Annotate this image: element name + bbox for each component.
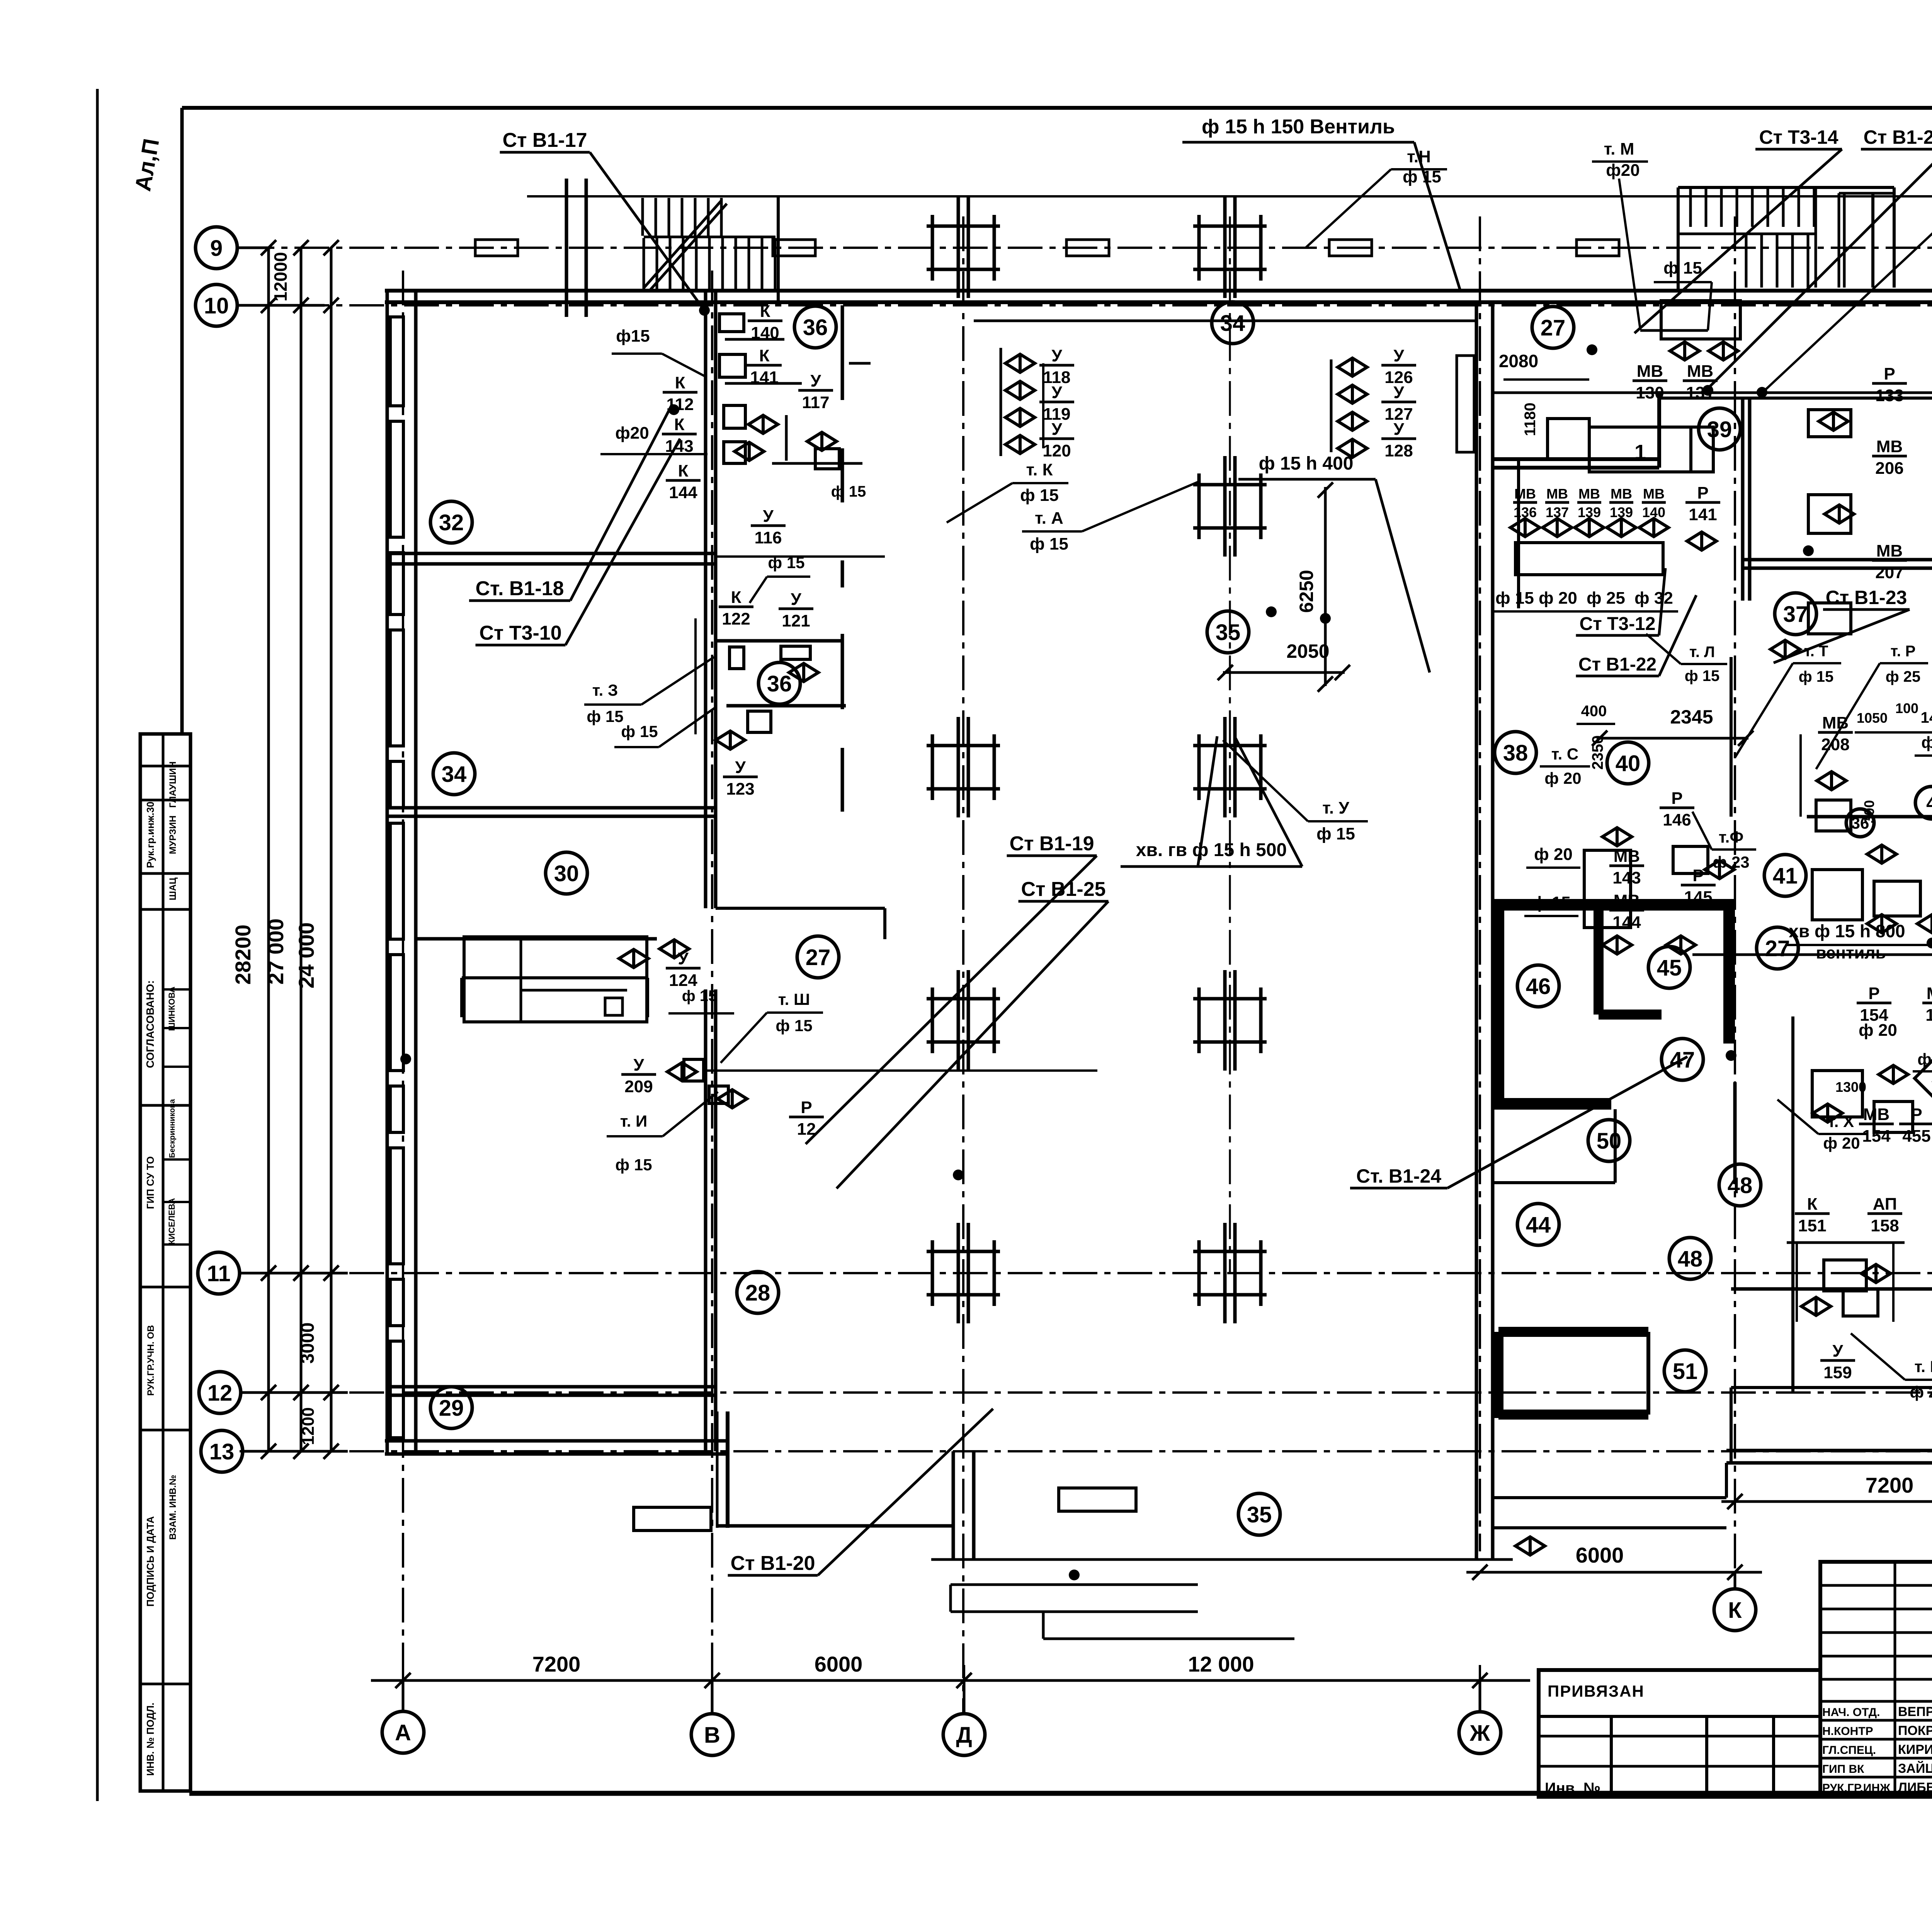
svg-text:36: 36 bbox=[767, 671, 792, 696]
svg-text:27: 27 bbox=[1765, 936, 1790, 961]
stair tread upper bbox=[681, 198, 684, 236]
svg-text:Ст. В1-24: Ст. В1-24 bbox=[1356, 1165, 1441, 1187]
svg-text:ф 25: ф 25 bbox=[1587, 589, 1625, 608]
stair tread 2 lower bbox=[1776, 235, 1779, 288]
svg-text:159: 159 bbox=[1823, 1363, 1852, 1382]
interior walls left classroom block bbox=[387, 552, 716, 555]
svg-text:2050: 2050 bbox=[1286, 640, 1329, 662]
room 35 circle bbox=[1238, 1493, 1280, 1535]
svg-text:ф 15: ф 15 bbox=[1663, 259, 1702, 278]
axis B circle bbox=[691, 1714, 733, 1755]
wall 43/49 bbox=[1731, 1386, 1932, 1389]
svg-text:154: 154 bbox=[1862, 1127, 1891, 1146]
svg-text:хв ф 15 h 800: хв ф 15 h 800 bbox=[1789, 921, 1905, 941]
room 35 circle bbox=[1207, 611, 1249, 653]
svg-text:т. С: т. С bbox=[1551, 745, 1579, 763]
misc pipe lines bbox=[725, 338, 784, 341]
fixture bbox=[1808, 495, 1851, 533]
wall 50/44 bbox=[1493, 1181, 1615, 1184]
svg-text:1400: 1400 bbox=[1921, 709, 1932, 726]
coldroom left wall bbox=[1493, 905, 1504, 1104]
axis Zh line bbox=[1479, 216, 1481, 1551]
room 28 circle bbox=[737, 1272, 779, 1313]
svg-text:ф 20: ф 20 bbox=[1539, 589, 1577, 608]
svg-text:208: 208 bbox=[1821, 735, 1849, 754]
svg-text:МВ: МВ bbox=[1927, 984, 1932, 1003]
svg-text:МВ: МВ bbox=[1822, 713, 1849, 732]
svg-text:1180: 1180 bbox=[1522, 403, 1539, 436]
column bbox=[927, 717, 1000, 817]
fixture bbox=[1808, 410, 1851, 437]
svg-text:вентиль: вентиль bbox=[1816, 943, 1886, 962]
fixture bbox=[1673, 846, 1708, 873]
axis 11 circle bbox=[198, 1252, 240, 1294]
svg-text:ф 15: ф 15 bbox=[1020, 486, 1059, 505]
svg-text:НАЧ. ОТД.: НАЧ. ОТД. bbox=[1822, 1706, 1880, 1719]
room36b north wall bbox=[714, 639, 843, 643]
svg-text:40: 40 bbox=[1616, 751, 1641, 776]
svg-text:Р: Р bbox=[1868, 984, 1879, 1003]
svg-text:ф20: ф20 bbox=[1606, 161, 1639, 180]
svg-text:У: У bbox=[735, 758, 746, 777]
room30 small fixture bbox=[605, 998, 622, 1015]
axis 11 line bbox=[240, 1272, 1932, 1274]
svg-text:48: 48 bbox=[1678, 1246, 1703, 1272]
svg-text:3000: 3000 bbox=[298, 1323, 318, 1364]
svg-text:МВ: МВ bbox=[1546, 486, 1568, 502]
svg-text:2080: 2080 bbox=[1499, 351, 1538, 371]
svg-text:143: 143 bbox=[1612, 868, 1641, 887]
svg-text:КИСЕЛЕВА: КИСЕЛЕВА bbox=[167, 1198, 177, 1245]
svg-text:9: 9 bbox=[210, 236, 223, 261]
svg-text:Н.КОНТР: Н.КОНТР bbox=[1822, 1725, 1873, 1738]
room 4 circle bbox=[1915, 787, 1932, 819]
svg-text:35: 35 bbox=[1216, 620, 1241, 645]
svg-text:ф 15: ф 15 bbox=[1917, 1050, 1932, 1068]
svg-text:т. З: т. З bbox=[592, 681, 618, 699]
svg-text:Р: Р bbox=[1884, 364, 1895, 383]
axis K line bbox=[1734, 216, 1736, 1589]
svg-text:А: А bbox=[395, 1720, 411, 1745]
fraction labels foyer area bbox=[1039, 346, 1074, 387]
fixture bbox=[748, 711, 771, 732]
exterior top wall bbox=[385, 289, 1932, 293]
fixture bbox=[709, 1086, 728, 1103]
bottom wall left block bbox=[385, 1439, 729, 1443]
window left wall bbox=[390, 1148, 403, 1264]
axis 9 line bbox=[240, 247, 1932, 249]
svg-text:7200: 7200 bbox=[532, 1652, 581, 1676]
svg-text:У: У bbox=[1051, 420, 1062, 439]
stair tread upper bbox=[720, 198, 723, 236]
wing portico edge bbox=[931, 1558, 1513, 1561]
svg-text:РУК.ГР.ИНЖ: РУК.ГР.ИНЖ bbox=[1822, 1782, 1891, 1794]
axis 10 line bbox=[240, 304, 1932, 306]
wall 37/41 bbox=[1807, 815, 1932, 819]
svg-text:МВ: МВ bbox=[1876, 541, 1903, 560]
svg-text:ф 15: ф 15 bbox=[1799, 668, 1834, 685]
fixture bbox=[1691, 427, 1713, 472]
left vertical dimension lines bbox=[267, 248, 270, 1451]
svg-text:У: У bbox=[791, 590, 801, 609]
svg-text:6000: 6000 bbox=[815, 1652, 863, 1676]
svg-text:ф 20: ф 20 bbox=[1823, 1134, 1860, 1152]
svg-text:т.Ф: т.Ф bbox=[1719, 828, 1743, 846]
svg-text:У: У bbox=[1393, 420, 1404, 439]
svg-text:455: 455 bbox=[1902, 1127, 1930, 1146]
svg-text:123: 123 bbox=[726, 780, 754, 798]
column bbox=[1193, 197, 1267, 298]
svg-text:ШИНКОВА: ШИНКОВА bbox=[167, 986, 177, 1031]
room 47 circle bbox=[1662, 1039, 1703, 1080]
pipe shaft bbox=[1457, 356, 1474, 452]
svg-text:ф 15: ф 15 bbox=[587, 707, 623, 725]
stair tread 2 bbox=[1720, 188, 1723, 227]
svg-text:ф 15: ф 15 bbox=[831, 483, 866, 500]
room 32 circle bbox=[430, 501, 472, 543]
svg-text:ф 15: ф 15 bbox=[1030, 535, 1068, 553]
svg-text:ГИП СУ ТО: ГИП СУ ТО bbox=[145, 1156, 156, 1209]
svg-text:50: 50 bbox=[1597, 1129, 1622, 1154]
axis 13 circle bbox=[201, 1430, 243, 1472]
svg-text:144: 144 bbox=[669, 483, 697, 502]
svg-text:Ст В1-23: Ст В1-23 bbox=[1826, 587, 1907, 608]
wing left wall bbox=[726, 1411, 730, 1528]
freon hatch bottom bbox=[1498, 1410, 1648, 1420]
axis D circle bbox=[943, 1714, 985, 1755]
column bbox=[1193, 717, 1267, 817]
svg-text:т. Л: т. Л bbox=[1689, 644, 1715, 661]
svg-text:128: 128 bbox=[1384, 441, 1413, 460]
stair tread upper bbox=[694, 198, 697, 236]
wall 30 bottom bbox=[416, 937, 657, 941]
svg-text:ф15: ф15 bbox=[616, 327, 650, 346]
fixture bbox=[1816, 800, 1851, 831]
diamond 5 bbox=[1915, 1057, 1932, 1100]
svg-text:Р: Р bbox=[1671, 789, 1682, 808]
room 27 circle bbox=[1532, 306, 1574, 348]
pier on axis9 bbox=[475, 240, 518, 256]
svg-text:206: 206 bbox=[1875, 459, 1903, 478]
stair tread lower bbox=[656, 238, 658, 290]
east wall seg5 bbox=[841, 748, 844, 812]
room 27 circle bbox=[797, 936, 839, 978]
stair tread lower bbox=[748, 238, 750, 290]
svg-text:Инв. №: Инв. № bbox=[1545, 1780, 1600, 1797]
svg-text:6000: 6000 bbox=[1576, 1543, 1624, 1567]
stair tread lower bbox=[643, 238, 645, 290]
pier on axis9 bbox=[1577, 240, 1619, 256]
stair tread upper bbox=[707, 198, 710, 236]
svg-text:МВ: МВ bbox=[1578, 486, 1600, 502]
fixture bbox=[1843, 1289, 1878, 1316]
svg-text:Рук.гр.инж.30: Рук.гр.инж.30 bbox=[145, 802, 156, 868]
frame bottom bbox=[189, 1791, 1932, 1796]
svg-text:т. Ш: т. Ш bbox=[778, 990, 810, 1008]
wall 32/34 bbox=[387, 562, 716, 566]
svg-text:209: 209 bbox=[624, 1077, 653, 1096]
svg-text:К: К bbox=[674, 415, 685, 434]
stair tread 2 bbox=[1782, 188, 1785, 227]
column bbox=[927, 1223, 1000, 1323]
svg-text:ф 15: ф 15 bbox=[776, 1016, 812, 1035]
svg-text:ф 15: ф 15 bbox=[1532, 893, 1571, 912]
svg-text:Д: Д bbox=[956, 1723, 972, 1748]
fraction labels top-left toilets bbox=[748, 302, 782, 342]
svg-text:35: 35 bbox=[1247, 1502, 1272, 1527]
fixture bbox=[1812, 1071, 1862, 1117]
svg-text:Р: Р bbox=[801, 1098, 812, 1117]
stair tread 2 bbox=[1751, 188, 1754, 227]
pier on axis9 bbox=[773, 240, 815, 256]
room 44 circle bbox=[1517, 1204, 1559, 1245]
svg-text:ф 20: ф 20 bbox=[1544, 769, 1581, 787]
svg-text:Ст Т3-10: Ст Т3-10 bbox=[479, 622, 561, 644]
svg-text:ГЛАУШИН: ГЛАУШИН bbox=[168, 761, 178, 808]
wall 34/30 bbox=[387, 815, 716, 818]
svg-text:У: У bbox=[1051, 346, 1062, 365]
coldroom inner wall bbox=[1594, 910, 1604, 1015]
foyer south wall bbox=[974, 320, 1476, 322]
svg-text:МВ: МВ bbox=[1863, 1105, 1889, 1124]
svg-text:30: 30 bbox=[554, 861, 579, 886]
svg-text:МВ: МВ bbox=[1611, 486, 1632, 502]
svg-text:ф 15: ф 15 bbox=[615, 1156, 652, 1174]
axis 10 circle bbox=[196, 284, 237, 326]
window left wall bbox=[390, 630, 403, 746]
room30 inner wall bbox=[462, 976, 648, 979]
svg-text:4: 4 bbox=[1926, 792, 1932, 814]
stoyaki labels bbox=[502, 129, 587, 152]
svg-text:ф 15 h 400: ф 15 h 400 bbox=[1259, 453, 1354, 474]
stair tread lower bbox=[774, 238, 777, 290]
svg-text:116: 116 bbox=[755, 528, 782, 547]
room 34 circle bbox=[433, 753, 475, 795]
intermediate column axis bbox=[1229, 216, 1231, 1273]
svg-text:36: 36 bbox=[803, 315, 828, 340]
svg-text:ф 15: ф 15 bbox=[621, 722, 658, 741]
svg-text:133: 133 bbox=[1875, 386, 1903, 405]
svg-text:К: К bbox=[675, 373, 685, 392]
svg-text:Ст. В1-18: Ст. В1-18 bbox=[476, 577, 564, 600]
svg-text:ф 20: ф 20 bbox=[1910, 1383, 1932, 1401]
axis A circle bbox=[382, 1711, 424, 1753]
pier on axis9 bbox=[1066, 240, 1109, 256]
svg-text:т. Т: т. Т bbox=[1804, 643, 1828, 660]
svg-text:1200: 1200 bbox=[299, 1407, 318, 1445]
wing bottom wall bbox=[717, 1524, 953, 1528]
svg-text:У: У bbox=[1393, 346, 1404, 365]
fixture bbox=[719, 314, 744, 332]
svg-text:ИНВ. № ПОДЛ.: ИНВ. № ПОДЛ. bbox=[145, 1702, 156, 1776]
stair tread lower bbox=[695, 238, 698, 290]
svg-text:т. И: т. И bbox=[620, 1112, 647, 1130]
stair tread upper bbox=[641, 198, 644, 236]
svg-text:143: 143 bbox=[665, 437, 693, 456]
window left wall bbox=[390, 823, 403, 939]
east wall seg3 bbox=[841, 560, 844, 587]
room30 counter bbox=[464, 937, 647, 1022]
svg-text:10: 10 bbox=[204, 293, 229, 318]
serving wall 38 bbox=[1517, 459, 1520, 608]
stair tread lower bbox=[669, 238, 672, 290]
fraction labels 38/40 area bbox=[1609, 847, 1644, 887]
window left wall bbox=[390, 421, 403, 537]
svg-text:146: 146 bbox=[1663, 810, 1691, 829]
svg-text:ф 15: ф 15 bbox=[1495, 589, 1534, 608]
fixtures: valves and boxes bbox=[748, 415, 778, 433]
svg-text:11: 11 bbox=[207, 1261, 230, 1286]
wall 28/29 bbox=[387, 1385, 716, 1389]
window left wall bbox=[390, 761, 403, 808]
svg-text:28: 28 bbox=[745, 1280, 770, 1306]
svg-text:ВЗАМ. ИНВ.№: ВЗАМ. ИНВ.№ bbox=[168, 1475, 178, 1540]
svg-text:2350: 2350 bbox=[1589, 735, 1606, 770]
window left wall bbox=[390, 553, 403, 615]
fixture bbox=[1589, 427, 1691, 472]
svg-text:ЛИБЕРЧУК: ЛИБЕРЧУК bbox=[1898, 1780, 1932, 1795]
wall room39 east bbox=[1657, 391, 1661, 468]
svg-text:29: 29 bbox=[439, 1396, 464, 1421]
svg-text:К: К bbox=[731, 588, 742, 607]
svg-text:ГЛ.СПЕЦ.: ГЛ.СПЕЦ. bbox=[1822, 1744, 1876, 1757]
bottom dimension line A-B-D-Zh bbox=[371, 1679, 1530, 1682]
stair tread upper bbox=[668, 198, 670, 236]
svg-text:У: У bbox=[763, 507, 774, 526]
stair tread lower bbox=[708, 238, 711, 290]
stair tread 2 lower bbox=[1807, 235, 1810, 288]
svg-text:44: 44 bbox=[1526, 1212, 1551, 1238]
room 29 circle bbox=[430, 1387, 472, 1428]
svg-text:ф20: ф20 bbox=[615, 424, 649, 443]
room 36 circle bbox=[759, 662, 800, 704]
svg-text:т. М: т. М bbox=[1604, 140, 1634, 158]
stair tread 2 bbox=[1798, 188, 1800, 227]
svg-text:7200: 7200 bbox=[1866, 1473, 1914, 1497]
fraction labels kitchen top bbox=[1381, 346, 1416, 387]
svg-text:т. К: т. К bbox=[1026, 460, 1053, 479]
svg-text:1: 1 bbox=[1634, 441, 1646, 464]
frame left upper bbox=[180, 108, 184, 734]
stair tread upper bbox=[655, 198, 657, 236]
svg-text:Ст В1-25: Ст В1-25 bbox=[1021, 878, 1105, 901]
room36b south wall bbox=[726, 704, 846, 708]
fixture bbox=[1824, 1260, 1866, 1291]
wall 27 bbox=[716, 907, 885, 910]
svg-text:1050: 1050 bbox=[1857, 710, 1888, 726]
svg-text:32: 32 bbox=[439, 510, 464, 535]
freon hatch left bbox=[1493, 1332, 1503, 1418]
svg-text:У: У bbox=[1832, 1342, 1843, 1360]
svg-text:51: 51 bbox=[1673, 1359, 1698, 1384]
room 36 circle bbox=[794, 306, 836, 348]
pier on axis9 bbox=[1329, 240, 1372, 256]
svg-text:В: В bbox=[704, 1723, 720, 1748]
stair tread 2 bbox=[1689, 188, 1692, 227]
svg-text:Ст Т3-12: Ст Т3-12 bbox=[1580, 614, 1656, 634]
svg-text:У: У bbox=[1051, 383, 1062, 402]
svg-text:КИРИЛЛОВА: КИРИЛЛОВА bbox=[1898, 1742, 1932, 1757]
coldroom inner wall 2 bbox=[1599, 1010, 1662, 1020]
fixture bbox=[1661, 301, 1740, 339]
stair tread 2 bbox=[1736, 188, 1738, 227]
svg-text:ПОДПИСЬ И ДАТА: ПОДПИСЬ И ДАТА bbox=[145, 1516, 156, 1607]
axis B line bbox=[711, 271, 713, 1714]
svg-text:т. У: т. У bbox=[1322, 798, 1349, 817]
axis 9 circle bbox=[196, 227, 237, 269]
wall 37 west bbox=[1730, 657, 1733, 817]
svg-text:ф 15: ф 15 bbox=[1685, 667, 1720, 684]
canopy edge line bbox=[527, 195, 1932, 197]
svg-text:МВ: МВ bbox=[1637, 362, 1663, 381]
svg-text:Ст В1-22: Ст В1-22 bbox=[1578, 654, 1656, 675]
svg-text:39: 39 bbox=[1707, 417, 1732, 442]
svg-text:ШАЦ: ШАЦ bbox=[168, 877, 178, 900]
stairwell top-right hatch bbox=[1678, 186, 1894, 189]
svg-text:Ж: Ж bbox=[1469, 1721, 1490, 1746]
east wall seg4 bbox=[841, 634, 844, 709]
axis D line bbox=[962, 216, 964, 1714]
svg-text:К: К bbox=[760, 302, 770, 321]
svg-text:34: 34 bbox=[1220, 311, 1245, 336]
svg-text:ф 20: ф 20 bbox=[1921, 733, 1932, 751]
room 46 circle bbox=[1517, 965, 1559, 1007]
svg-text:т.Н: т.Н bbox=[1407, 147, 1431, 166]
room 38 circle bbox=[1495, 732, 1536, 773]
kitchenside stack bbox=[1330, 359, 1333, 452]
room 51 circle bbox=[1664, 1350, 1706, 1392]
svg-text:хв. гв ф 15 h 500: хв. гв ф 15 h 500 bbox=[1136, 840, 1287, 860]
svg-text:124: 124 bbox=[669, 971, 697, 990]
svg-text:ПРИВЯЗАН: ПРИВЯЗАН bbox=[1548, 1682, 1645, 1700]
axis Zh circle bbox=[1459, 1712, 1501, 1754]
coldroom top wall bbox=[1493, 899, 1735, 911]
svg-text:12000: 12000 bbox=[270, 252, 291, 301]
fixture bbox=[634, 1507, 711, 1531]
window left wall bbox=[390, 1341, 403, 1438]
title block bbox=[1539, 1670, 1820, 1797]
kitchen block bottom wall bbox=[1726, 1449, 1932, 1452]
svg-text:т. Р: т. Р bbox=[1891, 643, 1916, 660]
stair arrow diagonal bbox=[644, 201, 721, 288]
fixture bbox=[724, 405, 745, 428]
fixture bbox=[1059, 1488, 1136, 1511]
svg-text:145: 145 bbox=[1684, 888, 1712, 907]
svg-text:РУК.ГР.УЧН. ОВ: РУК.ГР.УЧН. ОВ bbox=[146, 1325, 156, 1396]
svg-text:ф 32: ф 32 bbox=[1634, 589, 1673, 608]
svg-text:27: 27 bbox=[806, 945, 831, 970]
svg-text:12: 12 bbox=[207, 1381, 233, 1406]
svg-text:28200: 28200 bbox=[231, 924, 255, 985]
svg-text:Р: Р bbox=[1697, 484, 1708, 502]
stair tread 2 lower bbox=[1791, 235, 1794, 288]
fixture bbox=[1874, 881, 1920, 916]
svg-text:ф 15 h 150 Вентиль: ф 15 h 150 Вентиль bbox=[1202, 116, 1395, 138]
column bbox=[1193, 456, 1267, 557]
svg-text:100: 100 bbox=[1895, 700, 1918, 716]
svg-text:ВЕПРИНСКИЙ: ВЕПРИНСКИЙ bbox=[1898, 1704, 1932, 1719]
K axis wall mid bbox=[1733, 1082, 1737, 1184]
K axis wall stub lower bbox=[1730, 1388, 1733, 1463]
svg-text:У: У bbox=[633, 1056, 644, 1074]
loading dock outline right of Zh bbox=[1493, 1496, 1726, 1499]
svg-text:34: 34 bbox=[442, 762, 467, 787]
window left wall bbox=[390, 317, 403, 406]
freon hatch top bbox=[1498, 1327, 1648, 1337]
axis 12 circle bbox=[199, 1372, 241, 1413]
svg-text:Ст В1-20: Ст В1-20 bbox=[1864, 126, 1932, 148]
fixture bbox=[730, 647, 744, 669]
